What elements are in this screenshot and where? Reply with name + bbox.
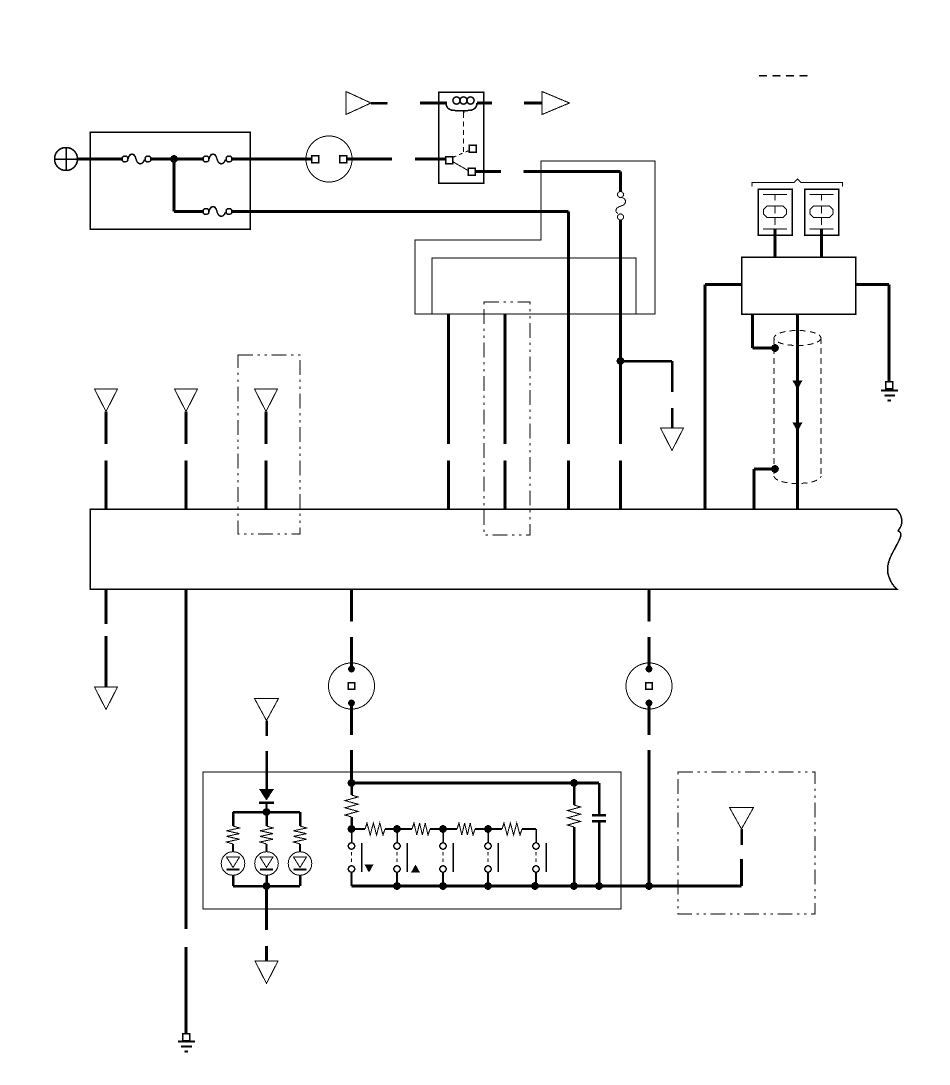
battery positive terminal bbox=[55, 148, 78, 171]
wire bus to connector C3 bbox=[648, 589, 651, 622]
branch arrow stub bbox=[671, 408, 674, 428]
wire arrow D2 to bus bbox=[185, 412, 188, 445]
rail to switch 5 bbox=[522, 828, 536, 830]
node rail bbox=[484, 825, 492, 833]
capacitor C bbox=[592, 783, 606, 886]
wire arrow H stub bbox=[740, 829, 743, 845]
marker up-triangle bbox=[411, 865, 420, 873]
arrow down G bbox=[255, 961, 278, 984]
resistor chain rail bbox=[352, 828, 366, 830]
LED branch 1 wire bbox=[232, 812, 235, 826]
wire R3 to LED bbox=[299, 844, 301, 852]
branch wire to dead-end arrow bbox=[624, 360, 672, 363]
switch S1 bbox=[348, 829, 361, 886]
dash-dot harness box B bbox=[484, 302, 530, 535]
node LED bottom bbox=[263, 882, 271, 890]
relay output wire bbox=[475, 170, 501, 173]
wire bus down to arrow E bbox=[105, 589, 108, 624]
wire breaker down bbox=[619, 220, 622, 445]
node rail bbox=[439, 825, 447, 833]
wire drop 3 through unit bbox=[567, 212, 570, 445]
wire bulb L2 to control unit bbox=[820, 229, 823, 257]
resistor Rs1 bbox=[365, 823, 385, 835]
wire drop 1 from unit bbox=[447, 314, 450, 444]
node junction in fuse box bbox=[170, 155, 178, 163]
switch unit box bbox=[203, 772, 621, 909]
wire F3 to vertical drop bbox=[232, 210, 569, 213]
wire arrow D1 to bus bbox=[105, 412, 108, 445]
wire C3 down bbox=[648, 705, 651, 735]
wire control unit stub down-left bbox=[751, 314, 754, 348]
dash-dot option box C bbox=[678, 772, 815, 914]
fuse F1 bbox=[122, 154, 151, 164]
node bottom rail bbox=[595, 882, 603, 890]
node rail bbox=[393, 825, 401, 833]
wire arrow H to rail bbox=[740, 859, 743, 886]
wire bulb L1 to control unit bbox=[774, 229, 777, 257]
interior light control unit box bbox=[742, 257, 856, 314]
wire from arrow A bbox=[371, 102, 388, 105]
switch unit bottom rail bbox=[352, 885, 742, 888]
wire control unit right bbox=[856, 283, 890, 286]
arrow down C bbox=[661, 428, 684, 451]
arrow down D2 bbox=[175, 389, 198, 412]
main harness bus bar bbox=[90, 509, 902, 589]
switch S3 bbox=[440, 829, 453, 886]
rail segment bbox=[475, 828, 502, 830]
wire R2 to LED bbox=[266, 844, 268, 852]
LED top rail bbox=[233, 811, 300, 814]
node resistor rail bbox=[348, 825, 356, 833]
fuse box bbox=[90, 132, 250, 229]
connector C1 pin right bbox=[340, 156, 347, 163]
LED 2 bbox=[255, 852, 279, 876]
wire breaker segment to bus bbox=[619, 461, 622, 510]
node at harness top bbox=[771, 344, 779, 352]
node switch rail top bbox=[348, 779, 356, 787]
resistor R4 vertical bbox=[350, 783, 353, 795]
diode D1 bbox=[259, 789, 274, 803]
C2 pin bottom bbox=[348, 700, 355, 707]
bulb L2 box bbox=[805, 189, 839, 235]
wire right down to ground bbox=[888, 285, 891, 383]
dashed note line bbox=[759, 75, 813, 77]
relay NC contact bbox=[468, 168, 475, 175]
switch S4 bbox=[485, 829, 498, 886]
wire through harness bbox=[796, 314, 799, 509]
connector C1 pin left bbox=[312, 156, 319, 163]
fuse F3 bbox=[203, 207, 232, 217]
node bottom rail bbox=[393, 882, 401, 890]
wire to arrow B bbox=[524, 102, 542, 105]
connector C3 bbox=[626, 663, 672, 709]
ground G2 bbox=[178, 1034, 195, 1052]
wire R1 to LED bbox=[232, 844, 234, 852]
wire F2 to connector C1 bbox=[232, 158, 312, 161]
LED branch 2 wire bbox=[265, 812, 268, 826]
dash-dot option box A bbox=[238, 355, 300, 534]
wire LED 1 to bottom rail bbox=[232, 875, 235, 886]
ground G1 bbox=[881, 382, 898, 401]
wire arrow D3 to bus bbox=[265, 412, 268, 445]
node bottom rail bbox=[570, 882, 578, 890]
relay actuator dashed line bbox=[463, 113, 465, 152]
wire node to F2 bbox=[177, 158, 203, 161]
wire bus to connector C2 bbox=[350, 589, 353, 622]
relay arm to NC contact bbox=[453, 162, 469, 171]
wire relay to circuit breaker bbox=[524, 170, 621, 173]
wire F1 to node bbox=[151, 158, 171, 161]
LED 3 bbox=[288, 852, 312, 876]
node on breaker wire bbox=[617, 357, 625, 365]
node bottom rail bbox=[531, 882, 539, 890]
switch S2 bbox=[394, 829, 407, 886]
node bottom rail bbox=[645, 882, 653, 890]
wire bus to ground G2 bbox=[185, 589, 188, 929]
switch S5 bbox=[533, 829, 546, 886]
switch unit top rail bbox=[352, 782, 600, 785]
arrow down H bbox=[730, 808, 754, 830]
wire stub to arrow G bbox=[265, 946, 268, 961]
arrow output B bbox=[542, 92, 570, 115]
wire node to F3 bbox=[174, 210, 203, 213]
node top rail R5 bbox=[570, 779, 578, 787]
brace over lamps bbox=[752, 179, 843, 187]
bulb L1 box bbox=[758, 189, 792, 235]
relay coil bbox=[446, 97, 477, 113]
wire diode to LED rail bbox=[266, 803, 268, 813]
C3 pin top bbox=[646, 666, 653, 673]
LED branch 3 wire bbox=[299, 812, 302, 826]
inner connector box bbox=[432, 258, 636, 314]
relay NO contact bbox=[469, 145, 476, 152]
resistor R2 bbox=[260, 826, 273, 844]
arrow input A bbox=[346, 92, 371, 115]
C2 pin top bbox=[348, 666, 355, 673]
relay U1 box bbox=[439, 92, 484, 183]
C3 pin bottom bbox=[646, 700, 653, 707]
relay coil output wire bbox=[477, 102, 492, 105]
arrow down D1 bbox=[95, 389, 118, 412]
node bottom rail bbox=[484, 882, 492, 890]
dash outline unit box (stepped) bbox=[415, 161, 655, 314]
harness marker 1 bbox=[793, 381, 803, 390]
connector C2 bbox=[329, 663, 375, 709]
harness cylinder (dashed) bbox=[774, 331, 821, 484]
relay common contact bbox=[446, 157, 453, 164]
resistor Rs3 bbox=[457, 823, 475, 835]
wire arrow F to diode bbox=[265, 721, 268, 737]
connector C1 bbox=[306, 136, 352, 182]
arrow down D3 bbox=[255, 389, 278, 412]
wire down to breaker bbox=[619, 172, 622, 193]
wire LED rail down bbox=[265, 886, 268, 930]
circuit breaker bbox=[616, 192, 626, 221]
marker down-triangle bbox=[365, 865, 374, 873]
bulb L1 filament bbox=[763, 195, 787, 230]
wire node down bbox=[173, 159, 176, 212]
wire battery to fuse box bbox=[78, 158, 123, 161]
node LED rail bbox=[263, 808, 271, 816]
resistor R3 bbox=[294, 826, 307, 844]
arrow down F bbox=[255, 699, 279, 721]
wire left down to bus bbox=[704, 285, 707, 510]
harness marker 2 bbox=[793, 423, 803, 432]
wire into relay coil bbox=[420, 102, 447, 105]
wire C1 to relay (broken) bbox=[347, 158, 393, 161]
arrow down E bbox=[95, 687, 118, 710]
fuse F2 bbox=[203, 154, 232, 164]
node at harness lower bbox=[771, 465, 779, 473]
relay arm dashed to NO contact bbox=[453, 151, 470, 158]
LED bottom rail bbox=[233, 885, 300, 888]
rail segment bbox=[385, 828, 412, 830]
resistor Rs2 bbox=[412, 823, 430, 835]
wire LED 3 to bottom rail bbox=[299, 875, 302, 886]
resistor R1 bbox=[227, 826, 240, 844]
wire C2 down to switch unit bbox=[350, 705, 353, 735]
wire control unit left bbox=[705, 283, 742, 286]
C2 center hole bbox=[348, 683, 355, 690]
C3 center hole bbox=[646, 683, 653, 690]
wire harness lower stub bbox=[754, 468, 772, 471]
wire LED 2 to bottom rail bbox=[265, 875, 268, 886]
node bottom rail bbox=[439, 882, 447, 890]
LED 1 bbox=[221, 852, 245, 876]
rail segment bbox=[430, 828, 457, 830]
resistor R5 bbox=[573, 783, 576, 805]
resistor Rs4 bbox=[502, 823, 522, 835]
bulb L2 filament bbox=[810, 195, 834, 230]
wire drop 2 from unit bbox=[504, 314, 507, 444]
